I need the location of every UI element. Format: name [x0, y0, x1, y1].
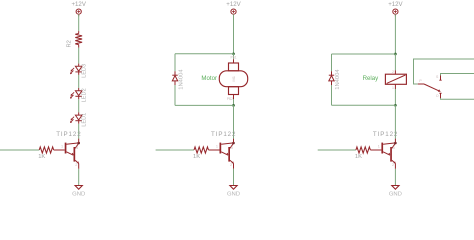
svg-text:GND: GND: [389, 191, 402, 197]
svg-text:3: 3: [231, 146, 233, 150]
junction: [232, 104, 235, 107]
svg-text:GND: GND: [72, 191, 85, 197]
wire net to base resistor: [318, 149, 356, 151]
LED LED2: [70, 88, 88, 102]
+12V supply symbol: [226, 1, 241, 16]
resistor 1K: [193, 147, 209, 160]
svg-text:LED2: LED2: [82, 88, 88, 102]
ground: [227, 186, 240, 198]
LED LED3: [70, 64, 88, 78]
wire: [78, 99, 80, 112]
svg-text:1N4004: 1N4004: [178, 69, 184, 90]
svg-text:LED3: LED3: [82, 64, 88, 78]
svg-text:1: 1: [378, 144, 380, 148]
svg-text:P$1: P$1: [231, 56, 237, 60]
wire net to base resistor: [0, 149, 39, 151]
relay coil K1: [385, 70, 406, 90]
transistor TIP122: [54, 131, 82, 169]
relay NC contact pin: [436, 75, 442, 80]
+12V supply symbol: [71, 1, 86, 16]
svg-text:2: 2: [392, 163, 394, 167]
ground: [72, 186, 85, 198]
resistor 1K: [38, 147, 54, 160]
svg-text:2: 2: [230, 163, 232, 167]
relay common pole pin: [418, 79, 424, 84]
wire: [78, 75, 80, 88]
relay NO contact pin: [436, 93, 442, 98]
svg-text:P: P: [419, 79, 422, 83]
svg-text:LED1: LED1: [82, 113, 88, 127]
wire: [78, 124, 80, 139]
wire diode branch upper: [174, 54, 176, 71]
wire to collector: [233, 105, 235, 138]
wire +12V to junction: [233, 14, 235, 54]
svg-text:TIP122: TIP122: [56, 131, 81, 138]
wire common route up and to edge: [414, 59, 474, 84]
svg-text:3: 3: [76, 146, 78, 150]
svg-text:TIP122: TIP122: [373, 131, 398, 138]
svg-text:1: 1: [392, 86, 394, 90]
svg-text:TIP122: TIP122: [211, 131, 236, 138]
svg-text:P$2: P$2: [227, 97, 233, 101]
svg-text:1N4004: 1N4004: [335, 69, 341, 90]
wire diode branch lower: [174, 85, 176, 105]
diode 1N4004: [329, 69, 341, 90]
svg-text:1K: 1K: [355, 154, 362, 160]
svg-text:+12V: +12V: [388, 1, 403, 8]
diode 1N4004: [172, 69, 184, 90]
svg-text:Motor: Motor: [201, 75, 217, 82]
wire net to base resistor: [156, 149, 194, 151]
svg-text:1: 1: [216, 144, 218, 148]
wire to collector: [394, 105, 396, 138]
wire emitter to ground: [233, 169, 235, 186]
relay switch arm: [424, 84, 441, 92]
ground: [389, 186, 402, 198]
svg-text:M1: M1: [231, 75, 236, 81]
wire emitter to ground: [394, 169, 396, 186]
svg-text:3: 3: [393, 146, 395, 150]
svg-text:+12V: +12V: [71, 1, 86, 8]
wire junction to diode top: [332, 53, 396, 55]
wire: [78, 48, 80, 64]
wire: [78, 14, 80, 31]
LED LED1: [70, 112, 88, 126]
svg-text:1K: 1K: [38, 154, 45, 160]
svg-text:R2: R2: [66, 40, 72, 47]
wire junction to motor: [233, 54, 235, 59]
transistor TIP122: [209, 131, 237, 169]
wire +12V to junction: [394, 14, 396, 54]
svg-text:GND: GND: [227, 191, 240, 197]
wire junction to relay coil: [394, 54, 396, 70]
wire diode branch upper: [331, 54, 333, 71]
wire motor to junction: [233, 99, 235, 105]
motor M1: [219, 56, 247, 101]
wire NC contact to edge: [441, 74, 474, 76]
wire diode to junction: [332, 104, 396, 106]
junction: [394, 104, 397, 107]
resistor 1K: [355, 147, 371, 160]
svg-text:2: 2: [392, 70, 394, 74]
junction: [394, 53, 397, 56]
svg-text:Relay: Relay: [363, 75, 380, 82]
svg-text:1K: 1K: [193, 154, 200, 160]
svg-text:2: 2: [75, 163, 77, 167]
junction: [232, 52, 235, 55]
svg-text:1: 1: [61, 144, 63, 148]
wire coil to junction: [394, 89, 396, 105]
wire diode to junction: [175, 104, 234, 106]
wire junction to diode top: [175, 53, 234, 55]
transistor TIP122: [370, 131, 398, 169]
svg-text:+12V: +12V: [226, 1, 241, 8]
wire emitter to ground: [78, 169, 80, 186]
svg-text:O: O: [436, 94, 439, 98]
resistor R2: [66, 31, 82, 47]
+12V supply symbol: [388, 1, 403, 16]
svg-text:S: S: [436, 75, 439, 79]
wire NO contact to edge: [441, 98, 474, 99]
wire diode branch lower: [331, 85, 333, 105]
